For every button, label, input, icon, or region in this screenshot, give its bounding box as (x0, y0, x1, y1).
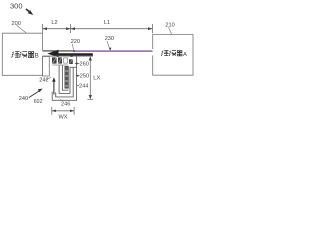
filter A text (161, 50, 182, 56)
purple signal line (73, 50, 153, 52)
svg-text:244: 244 (79, 84, 88, 90)
leader 210 (169, 27, 172, 34)
svg-text:LX: LX (93, 75, 100, 81)
WX dimension (52, 110, 74, 112)
svg-text:L1: L1 (104, 20, 110, 26)
hatched pad 4 (right arm top) (69, 59, 73, 64)
filter block B (2, 33, 42, 75)
arrowhead right end (148, 27, 153, 30)
tick right (152, 24, 154, 33)
arrowhead left end (43, 27, 48, 30)
hatched center strip (65, 66, 69, 88)
tick left (42, 24, 44, 33)
LX dimension line (89, 58, 91, 99)
middle U outer boundary (59, 65, 73, 93)
stub top line (43, 55, 94, 57)
leader 242 (45, 78, 51, 80)
stub arm box 242 (42, 57, 49, 77)
arrow 260 (77, 62, 80, 64)
leader 230 (107, 41, 110, 50)
black arrow shaft (56, 53, 93, 55)
dimension shaft (43, 28, 153, 30)
hatched pad square 1 (52, 57, 57, 63)
svg-text:L2: L2 (51, 20, 57, 26)
svg-text:A: A (183, 52, 187, 58)
leader 220 (72, 44, 73, 50)
LX bottom tick (87, 98, 93, 100)
arrowhead mid pointing right (66, 27, 71, 30)
svg-text:210: 210 (165, 22, 174, 28)
leader arrow 240 (29, 90, 40, 97)
outer U outer boundary (52, 56, 76, 100)
current up-arrow (53, 80, 55, 95)
black arrowhead (47, 50, 58, 58)
tick middle (70, 24, 72, 33)
leader 246 (60, 99, 62, 101)
hatched pad square 2 (58, 57, 62, 63)
svg-text:200: 200 (12, 21, 21, 27)
filter block A (153, 35, 193, 76)
outer U inner boundary (56, 67, 77, 97)
arrow 250 (77, 75, 79, 77)
leader 200 (17, 25, 27, 33)
svg-text:602: 602 (34, 99, 43, 105)
svg-text:260: 260 (80, 62, 89, 68)
svg-text:B: B (35, 53, 39, 60)
svg-text:230: 230 (105, 36, 114, 42)
svg-text:300: 300 (10, 2, 23, 11)
middle U inner boundary (62, 65, 68, 90)
outline square pad 3 (64, 58, 68, 63)
filter B text (12, 52, 35, 58)
svg-text:246: 246 (61, 102, 70, 108)
black line segment left (43, 50, 76, 52)
pad bottom connector (52, 64, 67, 66)
arrow from 300 (26, 9, 30, 12)
svg-text:240: 240 (19, 96, 28, 102)
svg-text:WX: WX (59, 115, 68, 121)
arrowhead mid pointing left (71, 27, 76, 30)
svg-text:250: 250 (80, 74, 89, 80)
arrow 244 (77, 85, 79, 87)
junction blob on line (70, 54, 72, 57)
